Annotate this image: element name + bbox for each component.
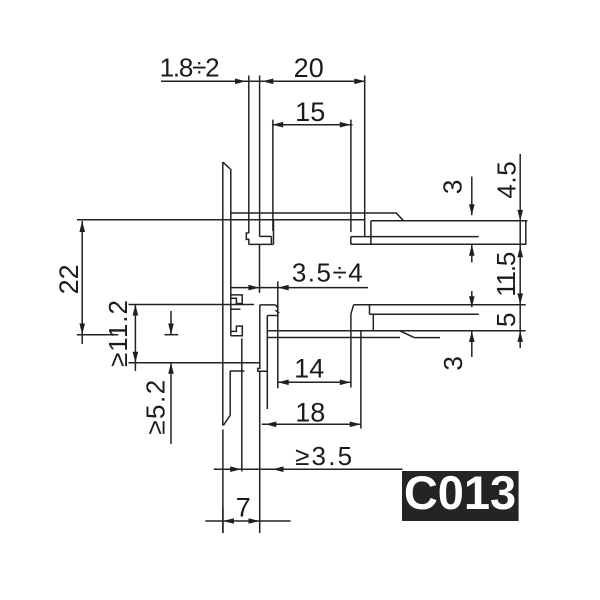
svg-text:7: 7 [236, 493, 251, 523]
svg-text:18: 18 [295, 398, 325, 428]
svg-text:14: 14 [294, 353, 324, 383]
svg-text:≥3.5: ≥3.5 [295, 441, 354, 471]
svg-text:≥5.2: ≥5.2 [141, 378, 171, 434]
svg-text:11.5: 11.5 [491, 252, 521, 297]
svg-text:15: 15 [295, 97, 325, 127]
svg-text:≥11.2: ≥11.2 [103, 299, 133, 367]
svg-text:5: 5 [491, 313, 521, 327]
svg-text:3: 3 [438, 180, 468, 194]
svg-text:C013: C013 [404, 466, 516, 519]
svg-text:3: 3 [438, 357, 468, 371]
svg-text:20: 20 [294, 53, 324, 83]
svg-text:22: 22 [54, 264, 84, 294]
svg-text:3.5÷4: 3.5÷4 [292, 258, 364, 288]
svg-text:1.8÷2: 1.8÷2 [160, 53, 220, 83]
svg-text:4.5: 4.5 [492, 161, 522, 199]
